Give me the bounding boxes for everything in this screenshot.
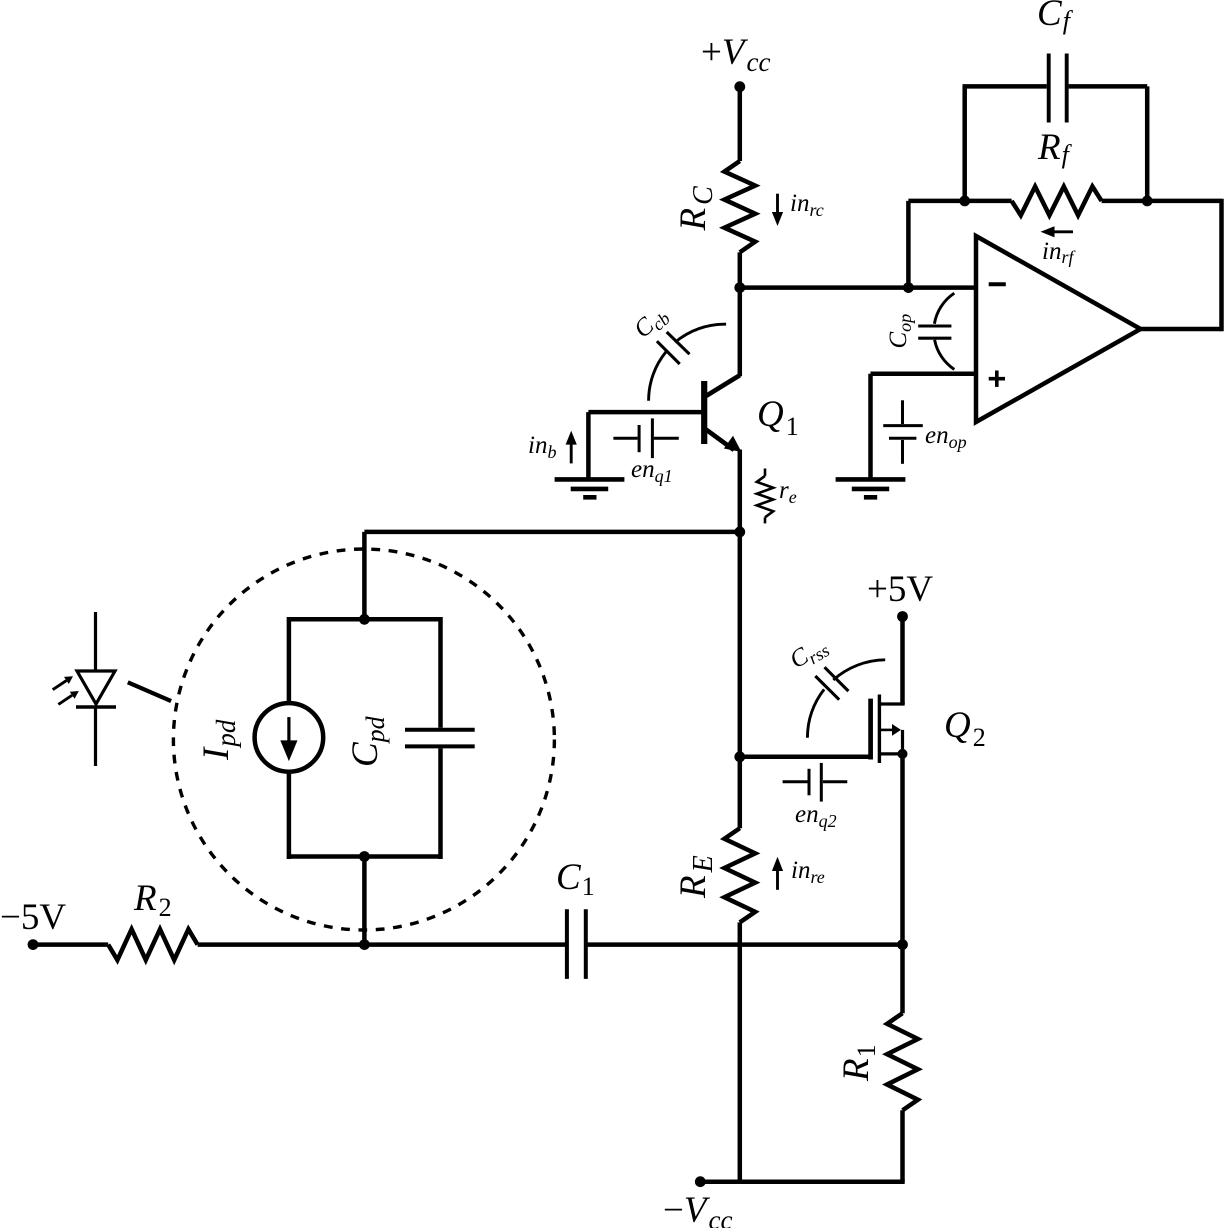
capacitor Cop arc upper bbox=[934, 293, 954, 324]
svg-text:Cf: Cf bbox=[1037, 0, 1074, 35]
current source Ipd arrow bbox=[287, 717, 290, 743]
op-amp minus marker bbox=[989, 282, 1006, 286]
wire feedback left vertical bbox=[906, 201, 911, 288]
capacitor Ccb plates bbox=[657, 332, 690, 364]
wire base to ground bbox=[586, 412, 591, 479]
node feedback left junction bbox=[959, 196, 970, 207]
svg-text:+5V: +5V bbox=[867, 569, 933, 610]
wire emitter vertical bbox=[738, 450, 743, 532]
photodiode model dashed circle bbox=[173, 549, 554, 930]
wire emitter node to photodiode column bbox=[364, 530, 739, 535]
wire Rf to output loop bbox=[1102, 199, 1222, 204]
wire Cpd bottom lead bbox=[438, 748, 443, 859]
noise arrow in_rc bbox=[776, 194, 779, 214]
wire model bottom to main line bbox=[362, 857, 367, 945]
wire photodiode column top bbox=[362, 532, 367, 619]
wire noninverting to ground bbox=[868, 374, 873, 479]
node -5V terminal bbox=[28, 939, 39, 950]
transistor Q2 drain stub bbox=[879, 702, 904, 705]
photodiode D1 cathode bar bbox=[76, 705, 116, 708]
wire output loop right vertical bbox=[1219, 199, 1224, 332]
wire noninverting input bbox=[871, 372, 977, 377]
resistor R1 bbox=[887, 1013, 918, 1110]
wire RE to -Vcc rail bbox=[738, 922, 743, 1181]
photodiode D1 anode lead bbox=[94, 612, 97, 671]
op-amp plus marker bbox=[989, 371, 1005, 387]
capacitor C1 plates bbox=[567, 909, 586, 979]
transistor Q2 gate bar bbox=[868, 699, 873, 760]
node model bottom junction bbox=[359, 851, 370, 862]
wire +Vcc to RC bbox=[738, 87, 743, 161]
transistor Q1 base bar bbox=[701, 381, 707, 444]
photodiode D1 cathode lead bbox=[94, 707, 97, 766]
resistor R2 bbox=[108, 929, 197, 960]
wire -5V to R2 bbox=[33, 942, 108, 947]
wire model bottom rail bbox=[289, 854, 441, 859]
current source Ipd circle bbox=[255, 703, 324, 772]
wire gate bbox=[740, 755, 873, 760]
wire Cpd top lead bbox=[438, 617, 443, 728]
transistor Q1 collector lead bbox=[706, 375, 740, 396]
wire Cf right lead bbox=[1069, 84, 1148, 89]
resistor RE bbox=[724, 828, 755, 922]
node +Vcc terminal bbox=[734, 81, 745, 92]
capacitor Ccb arc lower bbox=[649, 352, 667, 401]
capacitor Cop plates bbox=[918, 326, 951, 338]
wire collector node to op-amp inverting input bbox=[738, 285, 977, 290]
noise arrow in_re bbox=[776, 870, 779, 890]
transistor Q2 channel bar bbox=[878, 695, 881, 764]
noise source en_q2 (battery) bbox=[783, 763, 848, 802]
wire collector vertical bbox=[738, 288, 743, 377]
node inverting input junction bbox=[903, 282, 914, 293]
wire op-amp output bbox=[1141, 327, 1222, 332]
wire -Vcc rail bbox=[700, 1179, 904, 1184]
wire RC to collector node bbox=[738, 252, 743, 287]
wire Q2 source down bbox=[900, 754, 905, 945]
wire Ipd bottom lead bbox=[287, 772, 292, 859]
wire Cf loop left vertical bbox=[962, 86, 967, 200]
wire gate node to RE bbox=[738, 757, 743, 828]
wire R2 to C1 bbox=[198, 942, 566, 947]
node photodiode bottom junction bbox=[359, 939, 370, 950]
node collector junction bbox=[734, 282, 745, 293]
svg-text:−5V: −5V bbox=[0, 897, 66, 938]
ground at Q1 base bbox=[555, 479, 625, 497]
wire junction to R1 bbox=[900, 945, 905, 1014]
node feedback right junction bbox=[1142, 196, 1153, 207]
node emitter junction bbox=[734, 527, 745, 538]
transistor Q2 source stub bbox=[879, 752, 904, 755]
capacitor Crss arc lower bbox=[807, 689, 824, 737]
transistor Q2 bulk arrow stub bbox=[879, 729, 892, 732]
op-amp U1 triangle bbox=[976, 236, 1141, 422]
wire Cf left lead bbox=[963, 84, 1047, 89]
capacitor Crss arc upper bbox=[833, 660, 885, 680]
noise source en_q1 (battery) bbox=[613, 418, 678, 458]
wire C1 to R1 junction bbox=[587, 942, 903, 947]
capacitor Cop arc lower bbox=[935, 340, 955, 370]
node Q2 source junction bbox=[898, 749, 908, 759]
resistor Rf bbox=[1012, 187, 1102, 216]
node source/C1 junction bbox=[897, 939, 908, 950]
ground at op-amp noninverting input bbox=[836, 479, 906, 497]
node +5V terminal bbox=[897, 611, 908, 622]
noise current arrow in_b bbox=[570, 443, 573, 463]
node -Vcc terminal bbox=[695, 1176, 706, 1187]
resistor r_e (intrinsic, annotation) bbox=[764, 469, 767, 476]
transistor Q1 emitter lead with arrow bbox=[706, 430, 734, 451]
light arrow 2 bbox=[58, 695, 72, 704]
wire +5V to drain bbox=[900, 617, 905, 705]
wire Ipd top lead bbox=[287, 617, 292, 703]
wire feedback horizontal to Rf bbox=[908, 199, 1011, 204]
resistor RC bbox=[724, 161, 755, 252]
noise arrow in_rf bbox=[1053, 230, 1073, 233]
capacitor Crss plates bbox=[815, 667, 848, 700]
capacitor Cf plates bbox=[1049, 54, 1067, 123]
light arrow 1 bbox=[53, 681, 67, 690]
photodiode D1 triangle bbox=[77, 671, 115, 704]
capacitor Cpd plates bbox=[405, 730, 475, 747]
wire Q1 base bbox=[588, 410, 701, 415]
node gate junction bbox=[734, 751, 745, 762]
node model top junction bbox=[359, 614, 370, 625]
capacitor Ccb arc upper bbox=[675, 324, 726, 342]
wire emitter node down to gate node bbox=[738, 532, 743, 757]
wire model top rail bbox=[289, 617, 441, 622]
pointer line diode to model circle bbox=[128, 682, 171, 701]
noise source en_op (battery) bbox=[883, 400, 923, 464]
wire Cf loop right vertical bbox=[1145, 86, 1150, 200]
wire R1 to -Vcc rail bbox=[900, 1110, 905, 1181]
